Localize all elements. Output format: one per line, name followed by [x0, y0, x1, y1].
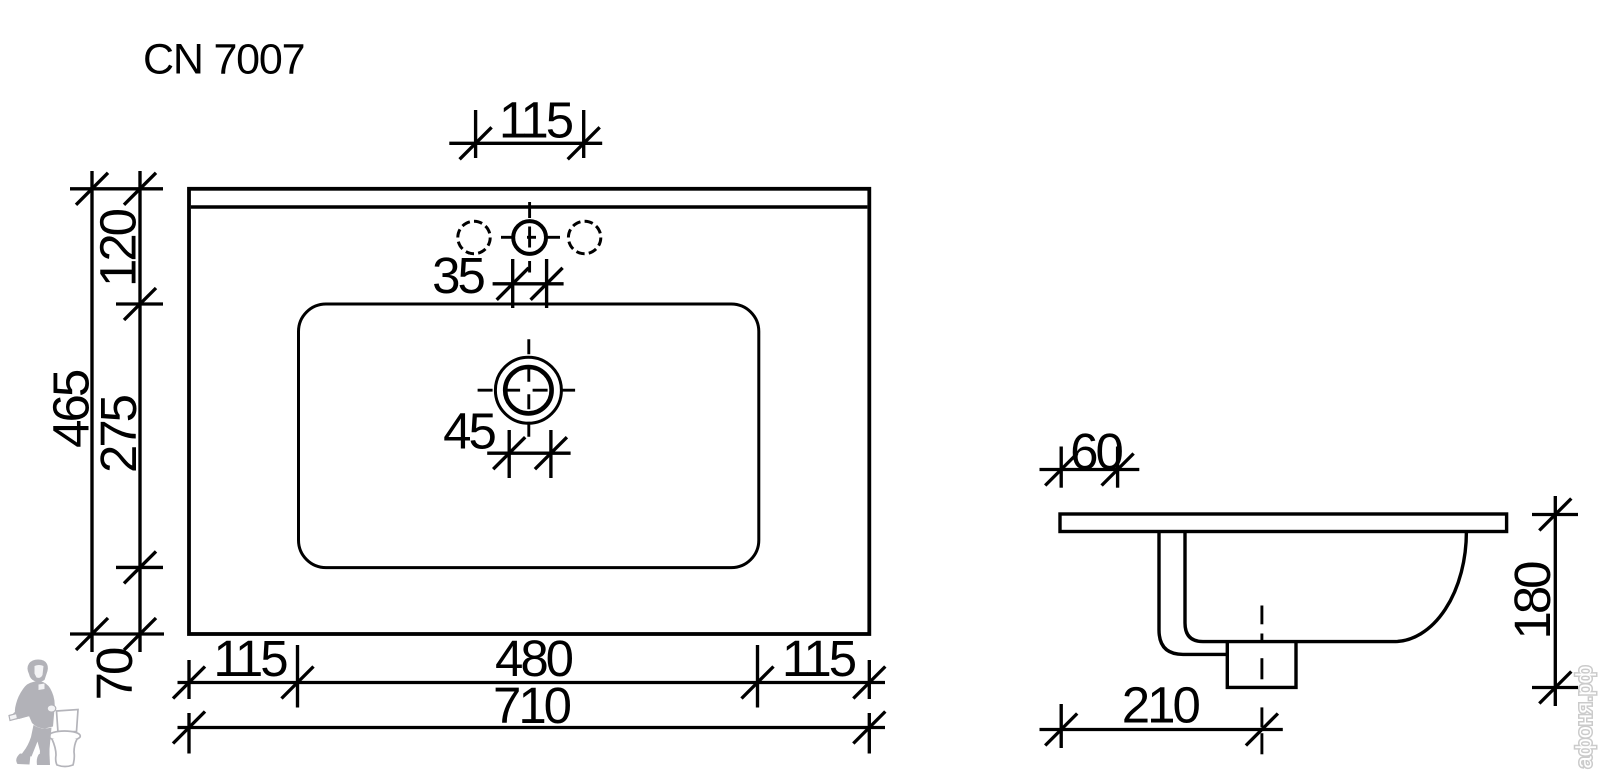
plumber hand on tank: [47, 705, 56, 712]
svg-text:60: 60: [1070, 423, 1122, 480]
bottom dim line 2: [178, 726, 886, 729]
bottom slashes: [173, 667, 205, 699]
left ext line bottom y634: [70, 632, 164, 635]
drain centerline horizontal: [478, 389, 576, 392]
toilet bowl rim: [49, 731, 81, 741]
210 dim: [1060, 704, 1063, 748]
drain box: [1227, 642, 1296, 688]
plumber head: [28, 660, 48, 682]
dashed hole left: [458, 221, 490, 253]
drain inner circle: [505, 367, 551, 413]
plumber legs: [21, 725, 52, 757]
counter slab: [1060, 514, 1507, 532]
60 dim: [1060, 447, 1063, 488]
faucet crosshair horizontal segments: [501, 202, 560, 273]
toilet pedestal: [52, 739, 77, 767]
plumber tool arm: [13, 707, 38, 719]
faucet hole solid: [513, 221, 546, 254]
svg-text:115: 115: [213, 630, 287, 687]
drain centerline vertical: [527, 339, 530, 440]
svg-text:70: 70: [86, 648, 143, 700]
bottom dim line 1: [178, 681, 886, 684]
left ext line basin top y304: [116, 302, 163, 305]
top 115 dim: [474, 110, 477, 158]
svg-text:120: 120: [90, 209, 147, 287]
tick slashes left column: [76, 173, 108, 205]
faucet crosshair vertical segments: [528, 202, 531, 218]
svg-text:CN 7007: CN 7007: [143, 36, 304, 84]
plumber boot left: [16, 754, 30, 765]
bottom dims ext verticals: [187, 660, 190, 699]
drain outer circle: [495, 357, 561, 423]
45 dim: [508, 430, 511, 478]
svg-text:45: 45: [443, 403, 495, 460]
drain centerline segments: [1260, 606, 1263, 755]
toilet tank: [57, 710, 79, 733]
svg-text:710: 710: [493, 677, 571, 734]
svg-text:210: 210: [1122, 677, 1200, 734]
svg-text:35: 35: [432, 247, 484, 304]
DIMENSIONS (stroke 3.2): [70, 110, 1578, 754]
svg-text:115: 115: [782, 630, 856, 687]
outer rect: [189, 189, 869, 634]
dashed hole right: [568, 221, 600, 253]
35 dim: [511, 259, 514, 308]
back edge line: [191, 205, 868, 209]
plumber torso jacket: [15, 681, 55, 729]
dim line 120/275/70: [138, 171, 141, 652]
plumber face: [35, 665, 44, 678]
svg-text:115: 115: [499, 92, 573, 149]
svg-text:афоня.рф: афоня.рф: [1572, 665, 1597, 768]
dim line 465: [90, 171, 93, 652]
bowl outer wall: [1159, 532, 1227, 655]
plumber bowtie: [39, 684, 45, 691]
left ext line basin bottom y567: [116, 566, 163, 569]
svg-text:180: 180: [1504, 562, 1561, 640]
dimension texts: [43, 92, 1561, 735]
svg-text:275: 275: [90, 395, 147, 473]
watermark plumber logo: [9, 660, 80, 767]
180 dim: [1532, 513, 1578, 516]
left ext line top y189: [70, 187, 163, 190]
plumber boot right: [37, 754, 50, 765]
tool handle white: [9, 714, 18, 721]
bowl inner wall and bottom: [1185, 532, 1466, 642]
basin rounded rect: [299, 304, 759, 568]
